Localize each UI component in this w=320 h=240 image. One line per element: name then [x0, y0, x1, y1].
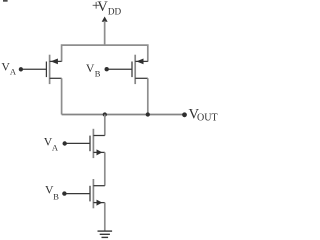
- transistor Q3 NMOS (VA) gate wire: [65, 142, 90, 144]
- transistor Q2 source arrow: [136, 59, 143, 65]
- transistor Q4 drain lead: [93, 185, 104, 187]
- transistor Q3 source lead: [93, 151, 104, 153]
- transistor Q4 source lead: [93, 202, 104, 204]
- junction node (NMOS drain): [103, 112, 107, 116]
- wire Q1 drain drop: [61, 78, 63, 114]
- transistor Q2 PMOS (VB) gate wire: [107, 68, 132, 70]
- wire output row: [62, 114, 184, 116]
- transistor Q4 NMOS (VB) gate wire: [64, 193, 90, 195]
- node VA dot (Q3): [62, 141, 66, 145]
- ground: [98, 231, 113, 237]
- transistor Q4 gate plate: [89, 186, 91, 202]
- transistor Q1 PMOS (VA) gate wire: [21, 68, 46, 70]
- node VB dot (Q2): [105, 67, 109, 71]
- node VOUT terminal dot: [182, 112, 187, 117]
- wire top rail with source risers: [62, 45, 148, 62]
- corner artifact mark: [3, 0, 8, 2]
- transistor Q3 channel: [92, 129, 94, 158]
- svg-text:V: V: [97, 0, 108, 15]
- wire Q3 source to Q4 drain: [104, 152, 106, 185]
- transistor Q2 gate plate: [131, 62, 133, 78]
- wire Q2 drain drop: [147, 78, 149, 114]
- transistor Q1 source lead: [50, 60, 62, 62]
- wire output to NMOS drain: [104, 115, 106, 136]
- VDD arrow: [102, 17, 108, 22]
- svg-text:DD: DD: [108, 7, 122, 17]
- svg-text:B: B: [53, 192, 59, 202]
- svg-text:A: A: [52, 143, 59, 153]
- transistor Q2 source lead: [135, 60, 148, 62]
- transistor Q4 source arrow: [97, 200, 103, 206]
- transistor Q2 channel: [134, 55, 136, 84]
- transistor Q4 channel: [92, 179, 94, 208]
- svg-text:B: B: [95, 68, 101, 78]
- transistor Q1 channel: [49, 55, 51, 84]
- transistor Q3 drain lead: [93, 135, 104, 137]
- node VA dot (Q1): [19, 67, 23, 71]
- transistor Q1 drain lead: [50, 77, 62, 79]
- wire VDD stem: [104, 21, 106, 45]
- transistor Q1 gate plate: [45, 62, 47, 78]
- junction node (Q2 drain): [146, 112, 150, 116]
- svg-text:OUT: OUT: [197, 113, 218, 124]
- transistor Q3 source arrow: [97, 149, 103, 155]
- transistor Q3 gate plate: [89, 136, 91, 152]
- svg-text:A: A: [10, 67, 17, 77]
- svg-text:V: V: [86, 61, 95, 75]
- node VB dot (Q4): [62, 191, 66, 195]
- transistor Q2 drain lead: [135, 77, 148, 79]
- wire Q4 source to ground: [104, 203, 106, 232]
- transistor Q1 source arrow: [51, 59, 58, 65]
